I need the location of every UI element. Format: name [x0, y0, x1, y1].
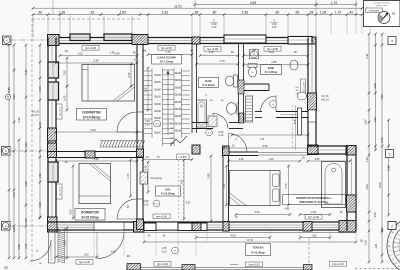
wall matrimonial left x223: [222, 152, 224, 221]
pier left rooms wall mid: [85, 151, 95, 158]
pier stair wall bottom: [192, 145, 200, 154]
svg-text:1.80: 1.80: [120, 10, 126, 14]
svg-text:.80: .80: [212, 10, 217, 14]
dim row baie top: [200, 55, 238, 57]
window sill lines top: [59, 40, 70, 42]
svg-text:1.00: 1.00: [209, 51, 214, 54]
svg-text:.40: .40: [349, 10, 354, 14]
dim line under baie2: [232, 134, 308, 136]
wall baie1 bottom: [192, 122, 213, 124]
svg-text:S=12.30mp: S=12.30mp: [161, 192, 175, 196]
svg-text:1.75: 1.75: [260, 139, 265, 141]
svg-text:30x30: 30x30: [154, 117, 161, 120]
dim row top rooms: [60, 55, 137, 57]
svg-text:30x30: 30x30: [154, 96, 161, 99]
svg-text:parter si etaj: parter si etaj: [376, 4, 388, 7]
window sill lines left: [51, 46, 53, 62]
pier matrimonial wall head: [223, 146, 230, 156]
pier left 3: [48, 143, 57, 158]
svg-text:5.00: 5.00: [378, 182, 382, 188]
svg-text:4.90: 4.90: [12, 94, 16, 100]
svg-text:hp=+0.92: hp=+0.92: [60, 106, 62, 116]
svg-text:S=13.00mp: S=13.00mp: [251, 251, 265, 255]
svg-text:1.10: 1.10: [365, 157, 369, 163]
svg-text:hp=+0.00: hp=+0.00: [249, 262, 261, 266]
svg-text:1.60: 1.60: [110, 250, 116, 254]
svg-text:11.01: 11.01: [174, 5, 182, 9]
door gap right wall: [309, 110, 316, 122]
svg-text:hp=+0.00: hp=+0.00: [333, 262, 345, 266]
label baie1: [199, 78, 219, 88]
wardrobe dressing: [322, 162, 346, 208]
extension lines below bottom wall: [93, 231, 95, 257]
wall bar bottom mid2: [178, 223, 207, 231]
svg-text:4.63: 4.63: [230, 234, 236, 238]
stair arrow: [167, 72, 169, 135]
svg-text:3.30: 3.30: [93, 59, 99, 63]
vertical bar chase: [298, 108, 302, 135]
pier bottom 3: [192, 223, 201, 231]
svg-text:2.90: 2.90: [223, 183, 226, 188]
svg-text:1.93: 1.93: [38, 173, 42, 179]
svg-text:E: E: [387, 245, 391, 247]
wall interior vertical x137: [136, 44, 138, 222]
svg-text:6.30: 6.30: [380, 137, 384, 143]
door tag baie1: [206, 129, 213, 136]
svg-text:1.20: 1.20: [212, 26, 217, 29]
window matrimonial top: [258, 152, 308, 154]
dim 4.63: [196, 237, 270, 239]
label casa scarii: [152, 55, 182, 65]
wall baie2 interior shower: [244, 83, 270, 85]
svg-text:4.60: 4.60: [373, 83, 377, 89]
marker left mid: [5, 94, 10, 99]
svg-text:4: 4: [391, 40, 393, 44]
radiator baie1: [208, 116, 217, 127]
svg-text:2.00: 2.00: [311, 211, 316, 214]
fireplace: [140, 172, 148, 184]
grid marker left 3: [2, 147, 11, 156]
svg-text:V: V: [273, 19, 275, 23]
label dormitor2: [75, 209, 105, 221]
svg-text:8.70: 8.70: [247, 238, 253, 242]
svg-text:.90: .90: [126, 254, 130, 258]
svg-text:30x30: 30x30: [175, 79, 182, 82]
terasa dashed edge: [308, 238, 310, 264]
svg-text:3.20: 3.20: [90, 128, 96, 132]
svg-text:3.98: 3.98: [208, 173, 211, 178]
svg-text:S=15.00mp: S=15.00mp: [81, 215, 98, 219]
title box compass: [364, 1, 400, 27]
pier interior mid: [137, 149, 144, 157]
pier top corner left: [48, 35, 60, 46]
label baie2: [261, 65, 282, 75]
svg-text:1.83: 1.83: [242, 10, 248, 14]
window box right: [288, 37, 312, 45]
dim chain top row1: [195, 4, 316, 6]
svg-text:2: 2: [391, 225, 393, 229]
svg-text:1.50: 1.50: [12, 227, 16, 233]
svg-text:4.55: 4.55: [70, 209, 73, 214]
door arc matrimonial: [229, 134, 248, 153]
bed matrimonial: [230, 171, 281, 206]
bidet baie2: [290, 60, 298, 70]
bottom dashed lines right: [355, 268, 400, 270]
svg-text:.60: .60: [293, 51, 297, 54]
dim hol: [143, 159, 192, 161]
svg-text:1.26: 1.26: [239, 158, 244, 161]
wall right lower exterior: [346, 146, 348, 231]
radiator baie2 ladder: [246, 96, 253, 122]
door arc baie2: [261, 96, 277, 112]
svg-text:30x30: 30x30: [154, 74, 161, 77]
svg-text:3: 3: [389, 153, 391, 157]
svg-text:1.00: 1.00: [24, 218, 28, 224]
svg-text:S=5.46mp: S=5.46mp: [202, 83, 215, 87]
dim matrimonial top: [224, 147, 308, 149]
architect stamp: [387, 217, 400, 270]
wall matrimonial top: [223, 151, 258, 153]
svg-text:1.52: 1.52: [311, 234, 317, 238]
wall bar bottom mid1: [144, 223, 156, 231]
svg-text:30x30: 30x30: [175, 101, 182, 104]
window box left3: [48, 162, 58, 182]
section hatch strip mid left: [100, 141, 145, 148]
svg-text:4.95: 4.95: [285, 208, 290, 211]
svg-text:1.86: 1.86: [64, 240, 67, 245]
label terasa: [246, 244, 271, 256]
svg-text:Cheping: Cheping: [150, 176, 162, 180]
wall bottom exterior: [48, 221, 356, 223]
pier left bottom corner: [48, 217, 58, 232]
svg-text:.60: .60: [230, 51, 234, 54]
svg-text:9.88: 9.88: [7, 87, 11, 93]
pier interior bottom: [137, 219, 144, 230]
dim chain left columns: [8, 45, 10, 258]
wall casa scarii - baie x192: [191, 44, 193, 134]
svg-text:U1,5: U1,5: [207, 133, 211, 135]
svg-text:3.35: 3.35: [93, 157, 99, 161]
terasa pier 2: [182, 265, 195, 270]
compass: [378, 12, 390, 24]
svg-text:Construire locuinta: Construire locuinta: [373, 1, 391, 4]
svg-text:9.88: 9.88: [387, 165, 391, 171]
svg-text:.60: .60: [38, 10, 43, 14]
pier step right end: [346, 146, 356, 156]
svg-text:30x30: 30x30: [154, 88, 161, 91]
svg-text:h=2.10: h=2.10: [321, 99, 329, 102]
svg-text:.90: .90: [127, 205, 130, 209]
pier bottom 4: [223, 222, 229, 232]
svg-text:1.00: 1.00: [83, 253, 89, 257]
svg-text:U1,5: U1,5: [155, 204, 159, 206]
svg-text:2.31: 2.31: [365, 53, 369, 59]
svg-text:si=2.10: si=2.10: [31, 115, 39, 117]
svg-text:30x30: 30x30: [175, 94, 182, 97]
dim 3.20 dormitor1: [56, 131, 137, 133]
dim matrimonial bottom: [236, 214, 290, 216]
svg-text:4.65: 4.65: [250, 1, 256, 5]
dim 8.70: [144, 241, 356, 243]
wall baie2 bottom: [255, 111, 262, 113]
svg-text:2.30: 2.30: [128, 72, 131, 77]
svg-text:30x30: 30x30: [175, 122, 182, 125]
hol dashed ceiling lines: [178, 156, 180, 219]
svg-text:S=14.56mp: S=14.56mp: [83, 115, 101, 119]
dim 1.52: [300, 237, 330, 239]
svg-text:1.86: 1.86: [17, 244, 21, 250]
svg-text:1.75: 1.75: [219, 59, 225, 63]
pier top 4: [192, 37, 200, 44]
svg-text:30x30: 30x30: [154, 103, 161, 106]
svg-text:3.00: 3.00: [12, 192, 16, 198]
wall right upper exterior: [307, 38, 309, 153]
wall baie1-baie2 x238: [238, 44, 240, 123]
svg-text:1.81: 1.81: [374, 243, 378, 249]
pier right upper: [308, 93, 317, 110]
svg-text:.90: .90: [275, 10, 280, 14]
hp box hol bottom: [153, 214, 170, 219]
bed dormitor2: [79, 164, 111, 204]
terasa pier 3: [304, 265, 313, 270]
label dormitor1: [77, 109, 107, 121]
svg-text:30x30: 30x30: [154, 132, 161, 135]
svg-text:2.95: 2.95: [64, 70, 67, 75]
label hol: [156, 186, 181, 196]
door gap terasa: [156, 223, 178, 230]
grid marker 2: [388, 222, 396, 230]
svg-text:.99: .99: [132, 52, 136, 55]
svg-text:4.50: 4.50: [373, 212, 377, 218]
svg-text:2.10: 2.10: [219, 134, 224, 137]
dim chain top row3: [33, 14, 370, 16]
dim matrimonial vert: [226, 166, 228, 205]
svg-text:30x30: 30x30: [175, 72, 182, 75]
svg-text:2.38: 2.38: [38, 202, 42, 208]
svg-text:30x30: 30x30: [175, 115, 182, 118]
svg-text:.95: .95: [64, 50, 68, 53]
svg-text:90: 90: [4, 266, 8, 270]
svg-text:2.41: 2.41: [24, 243, 28, 249]
pier top corner right: [306, 37, 316, 44]
wall between left rooms y152: [48, 151, 143, 153]
pier bottom 5: [303, 222, 312, 232]
door arc dormitor1: [117, 112, 137, 132]
bed dormitor1: [82, 65, 135, 102]
svg-text:1.62: 1.62: [162, 10, 168, 14]
svg-text:2.30: 2.30: [17, 117, 21, 123]
svg-text:ORIENTARE: ORIENTARE: [369, 9, 381, 12]
svg-text:30x30: 30x30: [154, 81, 161, 84]
window box kitchen: [224, 35, 266, 43]
dim chain right columns: [368, 34, 370, 262]
wall left exterior: [47, 38, 49, 232]
dim vert dormitor1: [66, 58, 68, 86]
svg-text:BAIE: BAIE: [205, 79, 212, 83]
svg-text:1.83: 1.83: [24, 142, 28, 148]
svg-text:N: N: [392, 12, 394, 16]
svg-text:30x30: 30x30: [175, 86, 182, 89]
pier right lower: [347, 195, 357, 212]
svg-text:2.40: 2.40: [145, 165, 148, 170]
svg-text:S=1.00: S=1.00: [31, 112, 39, 114]
pier left 2: [48, 128, 57, 141]
hatch strip lower left: [58, 229, 65, 263]
svg-text:hp=+0.92: hp=+0.92: [60, 186, 62, 196]
svg-text:1.70: 1.70: [165, 50, 171, 54]
svg-text:1.20: 1.20: [269, 158, 274, 161]
stair break zigzag: [170, 136, 187, 146]
svg-text:1.62: 1.62: [373, 117, 377, 123]
dim 3.35 dormitor2: [56, 160, 137, 162]
sink baie1: [227, 103, 237, 115]
door tag 4: [270, 101, 277, 108]
svg-text:2.55: 2.55: [271, 60, 277, 64]
door arc dormitor2: [117, 199, 137, 219]
svg-text:3.30: 3.30: [186, 202, 191, 205]
window box top1: [70, 34, 90, 41]
svg-text:hp=+0.90: hp=+0.90: [304, 82, 306, 92]
svg-text:3.54: 3.54: [365, 184, 369, 190]
staircase: [144, 68, 190, 146]
svg-text:30x30: 30x30: [175, 108, 182, 111]
window box left2: [48, 82, 59, 100]
dim vert dormitor2: [72, 166, 74, 218]
door arc baie1: [213, 114, 228, 129]
svg-text:1.40: 1.40: [115, 53, 120, 56]
svg-text:TERASA: TERASA: [252, 246, 263, 250]
bathtub baie1: [197, 100, 207, 127]
svg-text:4.18: 4.18: [145, 87, 148, 92]
washer baie2: [250, 50, 259, 59]
wall top exterior: [48, 37, 316, 39]
svg-text:1.28: 1.28: [320, 10, 326, 14]
pier bottom corner right: [339, 221, 356, 233]
svg-text:3.26: 3.26: [262, 144, 268, 148]
hp vertical box left 1: [57, 104, 63, 119]
svg-text:2.10: 2.10: [144, 203, 149, 206]
door gap dormitor2: [138, 199, 143, 219]
svg-text:4.35: 4.35: [64, 95, 67, 100]
window box top2: [104, 34, 132, 41]
wall extension lower left: [48, 231, 50, 263]
svg-text:.55: .55: [194, 10, 199, 14]
label dormitor matrimonial: [283, 195, 346, 205]
svg-text:DORMITOR MATRIMONIAL+: DORMITOR MATRIMONIAL+: [296, 196, 332, 200]
svg-text:HOL: HOL: [165, 187, 171, 191]
door arc exterior bottom1: [97, 232, 124, 259]
grid marker left 2: [2, 222, 11, 231]
extension lines top: [32, 16, 34, 38]
terasa outline: [56, 232, 356, 234]
window sill lines bottom: [57, 224, 94, 226]
svg-text:DORMITOR: DORMITOR: [82, 110, 101, 114]
grid marker 3: [386, 150, 394, 158]
grid marker 2 overlay: [388, 222, 396, 230]
dim chain top overall: [33, 7, 362, 9]
svg-text:1.70: 1.70: [127, 173, 130, 178]
svg-text:2.81: 2.81: [24, 69, 28, 75]
hp box casa scarii: [158, 46, 175, 51]
svg-text:1.88: 1.88: [380, 227, 384, 233]
hp vertical box left 2: [57, 184, 63, 199]
svg-text:2.10: 2.10: [162, 250, 167, 253]
svg-text:2.00: 2.00: [255, 211, 260, 214]
svg-text:4.45: 4.45: [38, 86, 42, 92]
svg-text:1.00: 1.00: [78, 53, 83, 56]
hp boxes row: [82, 46, 99, 51]
svg-text:hp=+0.00: hp=+0.00: [79, 260, 91, 264]
door gap dormitor1: [138, 112, 143, 132]
svg-text:3.00: 3.00: [181, 179, 184, 184]
svg-text:DRESSING S=20.70mp: DRESSING S=20.70mp: [300, 200, 329, 204]
svg-text:1.45: 1.45: [110, 52, 115, 55]
svg-text:1.38: 1.38: [59, 10, 65, 14]
toilet baie2: [248, 64, 257, 68]
svg-text:1.20: 1.20: [272, 26, 277, 29]
grid marker left 4: [3, 36, 12, 45]
svg-text:hp=+0.00: hp=+0.00: [161, 46, 173, 50]
sink baie2: [298, 92, 307, 100]
eave dash right of baie2: [292, 105, 294, 150]
terasa pier 1: [127, 264, 141, 270]
svg-text:hp=+0.00: hp=+0.00: [85, 46, 97, 50]
svg-text:2.50: 2.50: [315, 158, 320, 161]
svg-text:.92: .92: [90, 10, 95, 14]
door gap bottom left room: [94, 223, 124, 230]
svg-text:V: V: [213, 19, 215, 23]
wall step out right: [308, 145, 356, 147]
hp vertical box right wall: [301, 79, 306, 95]
svg-text:S=4.35mp: S=4.35mp: [265, 70, 278, 74]
grid marker 4: [388, 37, 396, 45]
svg-text:1.20: 1.20: [364, 240, 368, 246]
svg-text:1.97: 1.97: [364, 119, 368, 125]
pier top 3: [132, 35, 148, 45]
svg-text:.56: .56: [295, 10, 300, 14]
svg-text:.75: .75: [251, 51, 255, 54]
svg-text:4.50: 4.50: [380, 94, 384, 100]
svg-text:1.70: 1.70: [335, 10, 341, 14]
svg-text:2.73: 2.73: [285, 183, 288, 188]
svg-text:hp=+0.00: hp=+0.00: [157, 262, 169, 266]
svg-text:.60: .60: [361, 239, 364, 243]
toilet baie1: [234, 75, 238, 87]
svg-text:3.00: 3.00: [24, 181, 28, 187]
svg-text:S=7.15mp: S=7.15mp: [160, 60, 174, 64]
svg-text:30x30: 30x30: [175, 130, 182, 133]
svg-text:1.30: 1.30: [38, 122, 42, 128]
pier bottom 2: [134, 222, 145, 233]
window box left1: [48, 62, 59, 78]
svg-text:30x30: 30x30: [154, 110, 161, 113]
dim stairs vert: [147, 68, 149, 110]
pier right step: [308, 145, 319, 155]
svg-text:2.10: 2.10: [145, 123, 150, 126]
svg-text:1.70: 1.70: [331, 1, 337, 5]
svg-text:hp=+0.00: hp=+0.00: [308, 215, 320, 219]
svg-text:BAIE: BAIE: [268, 66, 275, 70]
svg-text:.28: .28: [309, 10, 314, 14]
svg-text:U1,5: U1,5: [155, 124, 159, 126]
roof overhang dashed: [31, 19, 33, 265]
svg-text:hp=+0.00: hp=+0.00: [156, 214, 168, 218]
svg-text:DORMITOR: DORMITOR: [81, 210, 100, 214]
svg-text:1.00: 1.00: [269, 51, 274, 54]
door arc exterior bottom2: [30, 240, 51, 261]
